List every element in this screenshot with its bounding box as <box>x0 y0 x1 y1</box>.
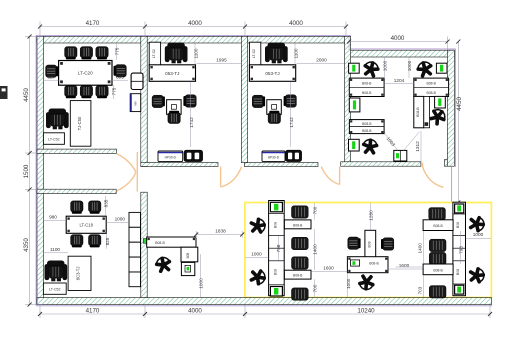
svg-text:B08-B: B08-B <box>433 268 443 272</box>
svg-text:B08-B: B08-B <box>155 241 165 245</box>
svg-text:827: 827 <box>48 75 56 80</box>
svg-text:LT-C18: LT-C18 <box>79 222 93 227</box>
svg-text:LT-S2: LT-S2 <box>152 49 156 58</box>
svg-text:4450: 4450 <box>456 97 463 111</box>
svg-text:1100: 1100 <box>194 48 199 58</box>
svg-text:B08: B08 <box>456 222 460 228</box>
svg-text:B08-B: B08-B <box>293 223 303 227</box>
svg-text:B08-B: B08-B <box>369 262 379 266</box>
svg-text:B08: B08 <box>186 252 190 258</box>
svg-text:B08: B08 <box>367 241 371 247</box>
svg-text:1400: 1400 <box>418 243 423 254</box>
svg-text:1000: 1000 <box>346 278 351 289</box>
svg-text:LT-C52: LT-C52 <box>48 137 60 141</box>
svg-text:B08-B: B08-B <box>433 224 443 228</box>
svg-text:B08-B: B08-B <box>362 129 372 133</box>
svg-text:TJ-C50: TJ-C50 <box>77 116 82 130</box>
svg-text:4000: 4000 <box>188 20 202 27</box>
svg-text:LT-C20: LT-C20 <box>78 71 93 76</box>
svg-text:980: 980 <box>49 215 57 220</box>
svg-text:1742: 1742 <box>189 117 194 128</box>
svg-text:1742: 1742 <box>289 117 294 128</box>
svg-text:1600: 1600 <box>323 265 334 270</box>
svg-text:4000: 4000 <box>391 35 405 42</box>
svg-text:1000: 1000 <box>199 278 204 289</box>
svg-text:053-TJ: 053-TJ <box>165 71 179 76</box>
svg-text:1100: 1100 <box>50 247 60 252</box>
svg-text:1838: 1838 <box>215 228 226 233</box>
svg-text:B08-B: B08-B <box>293 274 303 278</box>
svg-text:4000: 4000 <box>289 20 303 27</box>
svg-text:1000: 1000 <box>382 60 387 71</box>
svg-text:B08-B: B08-B <box>362 82 372 86</box>
svg-text:999: 999 <box>134 101 138 106</box>
svg-text:B08-B: B08-B <box>362 91 372 95</box>
svg-text:825: 825 <box>105 237 110 245</box>
svg-text:798: 798 <box>458 246 463 254</box>
svg-text:053-TJ: 053-TJ <box>265 71 279 76</box>
svg-text:B08: B08 <box>274 222 278 228</box>
svg-text:HP30-D: HP30-D <box>268 156 280 160</box>
svg-text:700: 700 <box>312 284 317 292</box>
svg-text:1500: 1500 <box>23 164 30 178</box>
svg-text:4170: 4170 <box>86 307 100 314</box>
svg-text:LT-C52: LT-C52 <box>49 288 61 292</box>
svg-text:10240: 10240 <box>357 307 375 314</box>
svg-text:703: 703 <box>418 286 423 294</box>
svg-text:4450: 4450 <box>23 88 30 102</box>
svg-text:B08: B08 <box>456 269 460 275</box>
svg-text:1204: 1204 <box>394 78 405 83</box>
svg-text:775: 775 <box>115 47 120 55</box>
svg-text:1312: 1312 <box>415 141 420 152</box>
svg-text:2000: 2000 <box>316 57 327 62</box>
svg-text:1100: 1100 <box>294 48 299 58</box>
svg-text:B08-B: B08-B <box>416 107 420 117</box>
svg-text:775: 775 <box>112 87 117 95</box>
svg-text:1000: 1000 <box>407 60 412 71</box>
svg-text:1000: 1000 <box>473 232 484 237</box>
svg-text:4350: 4350 <box>23 238 30 252</box>
svg-text:8C3-TJ: 8C3-TJ <box>76 267 81 281</box>
svg-text:4170: 4170 <box>86 20 100 27</box>
svg-text:700: 700 <box>312 206 317 214</box>
svg-text:B08: B08 <box>274 269 278 275</box>
svg-text:1000: 1000 <box>115 217 126 222</box>
svg-text:798: 798 <box>276 244 281 252</box>
svg-text:835: 835 <box>103 199 108 207</box>
svg-text:B08-B: B08-B <box>426 91 436 95</box>
svg-text:1280: 1280 <box>368 210 373 221</box>
svg-text:4000: 4000 <box>188 307 202 314</box>
svg-text:1400: 1400 <box>312 244 317 255</box>
svg-text:895: 895 <box>116 75 124 80</box>
svg-text:B08-B: B08-B <box>362 122 372 126</box>
svg-text:LT-S2: LT-S2 <box>252 49 256 58</box>
svg-text:B08-B: B08-B <box>426 82 436 86</box>
svg-text:1995: 1995 <box>216 57 227 62</box>
svg-text:HP30-D: HP30-D <box>165 156 177 160</box>
svg-text:1000: 1000 <box>251 252 262 257</box>
